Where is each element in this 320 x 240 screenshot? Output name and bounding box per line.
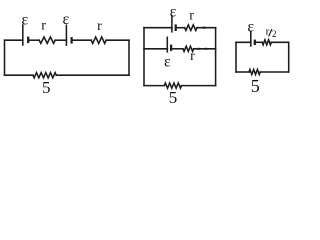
wire: resistor r2 to top-right corner (106, 39, 129, 41)
svg-text:5: 5 (42, 78, 51, 97)
wire: cell 1 to resistor r1 (28, 39, 39, 41)
svg-text:ε: ε (164, 54, 171, 71)
junction dot on circuit 2 top branch (202, 27, 206, 29)
wire: circuit 2 middle branch left segment (144, 48, 167, 50)
wire: circuit 1 right edge (128, 40, 130, 75)
svg-text:r: r (41, 19, 46, 34)
svg-text:ε: ε (63, 11, 70, 28)
resistor 5 (circuit 1 load) (33, 73, 56, 78)
wire: resistor r3 to top-right corner (197, 27, 216, 29)
battery cell 4 short plate (170, 45, 172, 51)
svg-text:ε: ε (21, 11, 28, 28)
battery cell 3 short plate (175, 24, 177, 31)
wire: circuit 2 top-left segment (144, 27, 172, 29)
junction dot on circuit 2 middle branch (left) (196, 48, 200, 50)
wire: circuit 3 top-left segment (236, 41, 251, 43)
svg-text:ε: ε (247, 19, 254, 36)
resistor 5 (circuit 3 load) (249, 70, 260, 75)
wire: circuit 2 left edge (143, 28, 145, 86)
wire: circuit 1 outer loop left edge (4, 40, 6, 75)
svg-text:5: 5 (251, 76, 260, 96)
wire: cell 3 to resistor r3 (176, 27, 185, 29)
battery cell 2 short plate (70, 37, 72, 44)
svg-text:r: r (189, 8, 194, 23)
wire: circuit 1 bottom-left segment (5, 74, 34, 76)
resistor r2 (internal resistance r) (91, 37, 106, 43)
svg-text:ε: ε (170, 3, 177, 20)
resistor 5 (circuit 2 load) (164, 83, 181, 88)
resistor r/2 (equivalent internal resistance) (262, 40, 271, 45)
resistor r1 (internal resistance r) (39, 37, 55, 43)
wire: circuit 3 right edge (288, 42, 290, 72)
battery cell 4 (EMF ε, middle branch) long plate (166, 37, 168, 52)
wire: cell 5 to resistor r/2 (255, 41, 262, 43)
battery cell 1 (EMF ε) long plate (22, 25, 24, 45)
wire: resistor r1 to battery cell 2 (55, 39, 66, 41)
battery cell 3 (EMF ε, top branch) long plate (171, 16, 173, 32)
svg-text:5: 5 (169, 88, 178, 107)
battery cell 2 (EMF ε) long plate (65, 25, 67, 45)
wire: circuit 3 bottom-right segment (260, 71, 289, 73)
svg-text:r: r (190, 49, 195, 64)
junction dot on circuit 2 middle branch (right) (204, 48, 208, 50)
resistor r4 (middle branch internal resistance r) (183, 46, 194, 51)
svg-text:2: 2 (272, 29, 277, 39)
wire: circuit 1 top-left segment (5, 39, 23, 41)
wire: resistor r4 to circuit 2 right edge (194, 48, 216, 50)
battery cell 1 short plate (27, 37, 29, 44)
wire: circuit 2 right edge (215, 28, 217, 86)
wire: circuit 3 bottom-left segment (236, 71, 249, 73)
battery cell 5 (EMF ε) long plate (250, 32, 252, 46)
wire: circuit 1 bottom-right segment (56, 74, 129, 76)
wire: circuit 2 bottom-right segment (182, 85, 216, 87)
wire: resistor r/2 to top-right corner (271, 41, 288, 43)
battery cell 5 short plate (254, 40, 256, 45)
resistor r3 (top branch internal resistance r) (185, 25, 197, 31)
wire: circuit 2 bottom-left segment (144, 85, 164, 87)
wire: cell 4 to resistor r4 (171, 48, 183, 50)
wire: circuit 3 left edge (235, 42, 237, 72)
svg-text:r: r (97, 19, 102, 34)
wire: cell 2 to resistor r2 (72, 39, 92, 41)
